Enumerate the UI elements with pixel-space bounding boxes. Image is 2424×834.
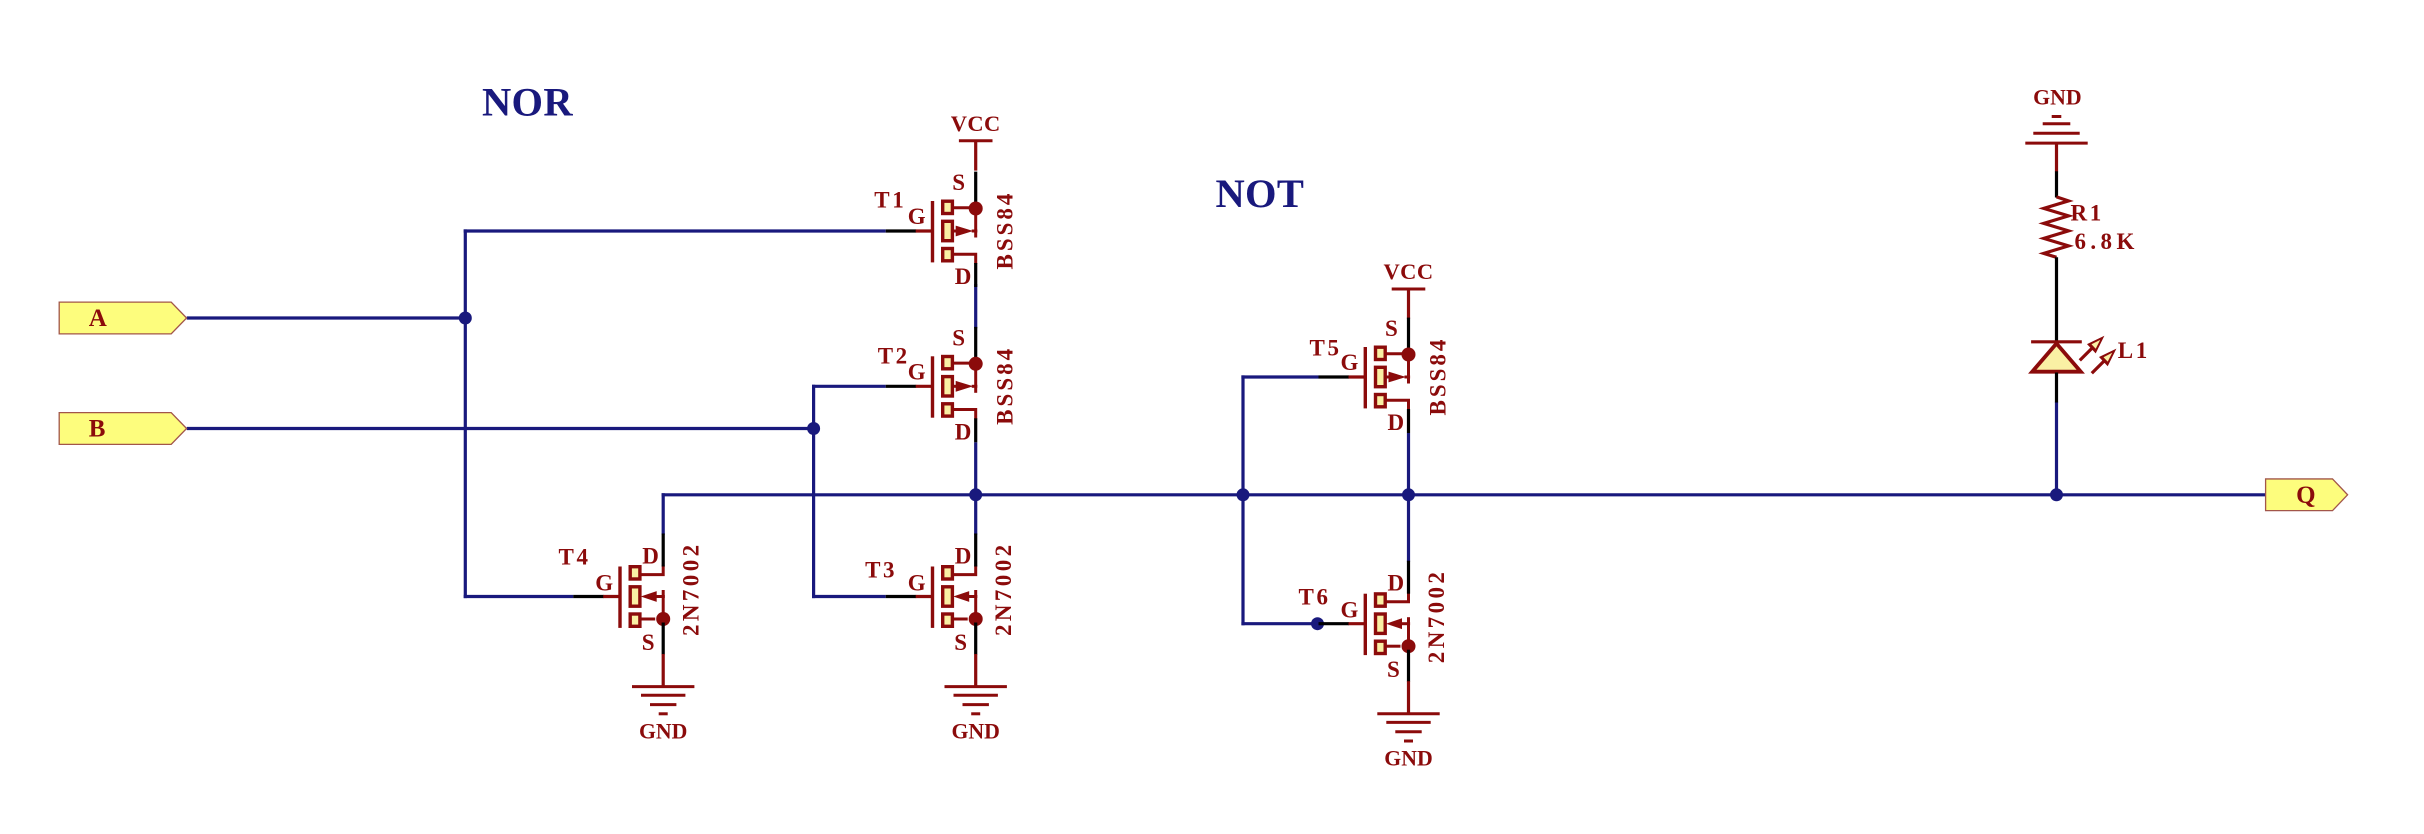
wire T5 gate xyxy=(1241,375,1318,378)
svg-text:T2: T2 xyxy=(878,344,910,369)
svg-text:G: G xyxy=(595,571,613,596)
svg-text:BSS84: BSS84 xyxy=(993,191,1018,270)
svg-text:S: S xyxy=(642,630,655,655)
svg-text:L1: L1 xyxy=(2118,338,2150,363)
wire T2 gate xyxy=(812,385,886,388)
wire T6 drain xyxy=(1407,495,1410,562)
wire R1 to LED xyxy=(2055,257,2058,341)
svg-text:R1: R1 xyxy=(2071,201,2104,226)
svg-text:D: D xyxy=(1388,571,1405,596)
node NOT input junction xyxy=(1237,488,1250,501)
svg-text:2N7002: 2N7002 xyxy=(991,541,1016,636)
svg-text:G: G xyxy=(1341,598,1359,623)
svg-text:BSS84: BSS84 xyxy=(993,346,1018,425)
LED L1 xyxy=(2031,336,2150,374)
ground GND for T3 xyxy=(945,687,1007,744)
svg-text:GND: GND xyxy=(2033,85,2081,109)
wire NOT input vertical xyxy=(1241,375,1244,625)
title NOT xyxy=(1216,171,1305,216)
wire T1 gate xyxy=(464,229,886,232)
svg-text:D: D xyxy=(1388,410,1405,435)
svg-text:6.8K: 6.8K xyxy=(2075,229,2139,254)
transistor T3 2N7002 xyxy=(865,534,1016,686)
svg-text:GND: GND xyxy=(951,719,999,743)
svg-text:T6: T6 xyxy=(1299,585,1331,610)
transistor T5 BSS84 xyxy=(1310,316,1451,435)
ground GND for T4 xyxy=(632,687,694,744)
node NOR output junction xyxy=(969,488,982,501)
wire T4 gate xyxy=(464,595,574,598)
wire T1 drain to T2 source xyxy=(974,284,977,328)
wire T5 drain to output xyxy=(1407,433,1410,495)
svg-text:NOR: NOR xyxy=(482,79,573,124)
wire T4 drain xyxy=(662,493,665,534)
wire net B vertical xyxy=(812,385,815,598)
resistor R1 xyxy=(2044,197,2139,257)
svg-text:Q: Q xyxy=(2296,482,2315,509)
title NOR xyxy=(482,79,573,124)
output flag Q xyxy=(2266,479,2348,511)
transistor T2 BSS84 xyxy=(878,325,1018,444)
svg-text:T1: T1 xyxy=(874,188,906,213)
svg-text:T4: T4 xyxy=(559,544,591,569)
wire T3 drain xyxy=(974,495,977,535)
svg-text:NOT: NOT xyxy=(1216,171,1305,216)
svg-text:G: G xyxy=(908,571,926,596)
svg-text:T3: T3 xyxy=(865,557,897,582)
wire T3 gate xyxy=(812,595,886,598)
wire output net Q xyxy=(662,493,2267,496)
input flag A xyxy=(59,302,186,334)
svg-text:D: D xyxy=(955,419,972,444)
node T6 gate junction xyxy=(1311,617,1324,630)
node NOT output junction xyxy=(1402,488,1415,501)
wire net B horizontal xyxy=(187,427,814,430)
node LED junction xyxy=(2050,488,2063,501)
svg-text:S: S xyxy=(1387,657,1400,682)
node B junction xyxy=(807,422,820,435)
wire R1 top pin xyxy=(2055,171,2058,197)
transistor T6 2N7002 xyxy=(1299,561,1449,713)
svg-text:G: G xyxy=(1341,350,1359,375)
svg-text:S: S xyxy=(954,630,967,655)
svg-text:D: D xyxy=(955,544,972,569)
svg-text:B: B xyxy=(89,416,106,443)
node A junction xyxy=(459,312,472,325)
svg-text:T5: T5 xyxy=(1310,336,1342,361)
power VCC for T5 xyxy=(1384,259,1434,319)
transistor T4 2N7002 xyxy=(559,534,704,686)
input flag B xyxy=(59,413,186,445)
wire net A horizontal xyxy=(187,316,466,319)
svg-text:VCC: VCC xyxy=(951,111,1001,136)
svg-text:G: G xyxy=(908,359,926,384)
wire LED to output net xyxy=(2055,402,2058,495)
svg-text:2N7002: 2N7002 xyxy=(679,541,704,636)
svg-text:G: G xyxy=(908,204,926,229)
svg-text:GND: GND xyxy=(639,719,687,743)
transistor T1 BSS84 xyxy=(874,170,1017,289)
wire T2 drain to output xyxy=(974,442,977,495)
svg-text:GND: GND xyxy=(1384,747,1432,771)
svg-text:BSS84: BSS84 xyxy=(1426,337,1451,416)
svg-text:D: D xyxy=(642,544,659,569)
wire T6 gate xyxy=(1241,622,1318,625)
power VCC for T1 xyxy=(951,111,1001,171)
svg-text:S: S xyxy=(952,170,965,195)
wire LED bottom pin xyxy=(2055,373,2058,403)
wire net A vertical xyxy=(464,229,467,598)
svg-text:VCC: VCC xyxy=(1384,259,1434,284)
ground GND top xyxy=(2025,85,2087,171)
svg-text:A: A xyxy=(89,305,107,332)
svg-text:D: D xyxy=(955,264,972,289)
svg-text:S: S xyxy=(1385,316,1398,341)
svg-text:S: S xyxy=(952,325,965,350)
svg-text:2N7002: 2N7002 xyxy=(1424,569,1449,664)
ground GND for T6 xyxy=(1377,714,1439,771)
